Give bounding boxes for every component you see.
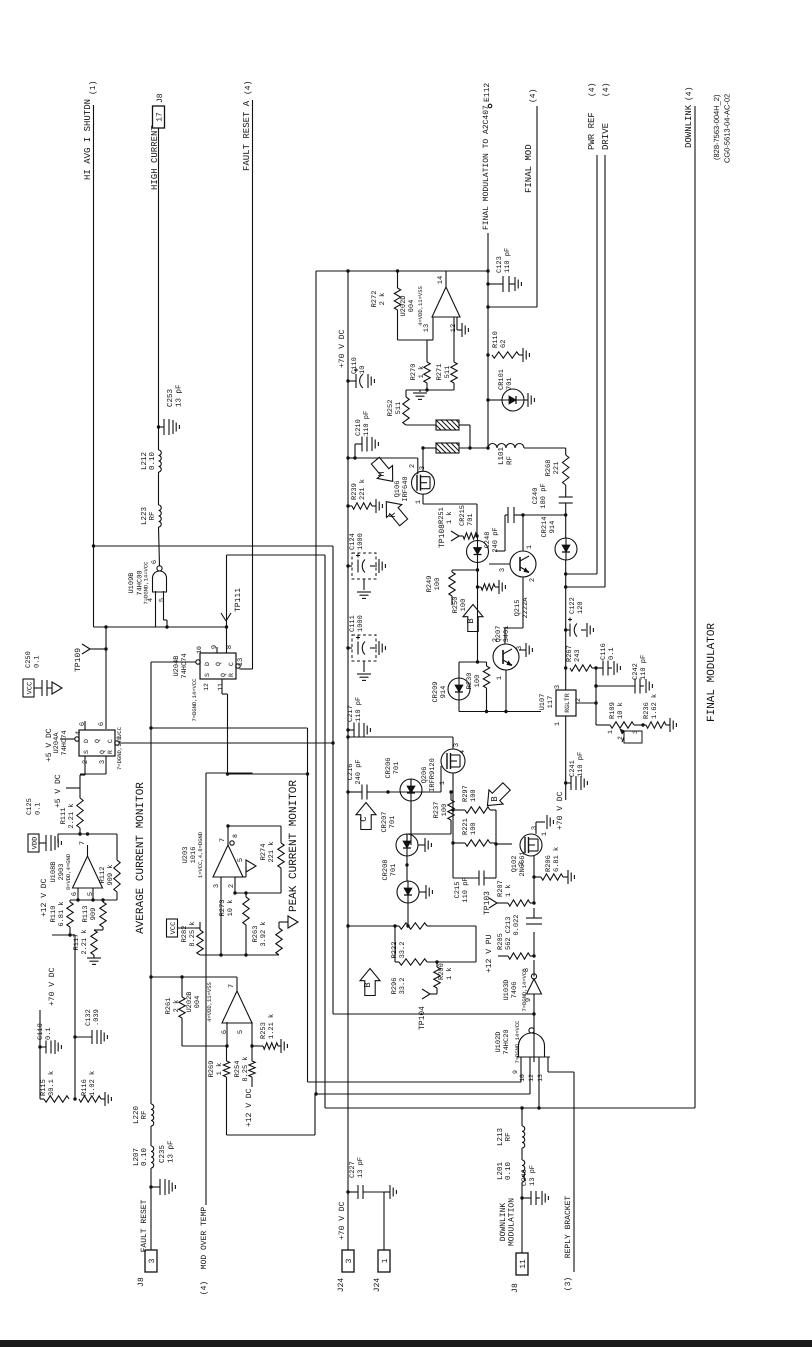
svg-text:CR206: CR206 bbox=[385, 757, 393, 778]
resistor R207 bbox=[497, 880, 536, 906]
svg-text:221 k: 221 k bbox=[267, 841, 276, 862]
svg-text:B: B bbox=[490, 796, 500, 802]
svg-text:R251: R251 bbox=[438, 507, 446, 524]
svg-text:R249: R249 bbox=[426, 576, 434, 593]
svg-text:100: 100 bbox=[474, 675, 482, 688]
svg-text:1: 1 bbox=[439, 781, 447, 785]
wire Q215 emitter bbox=[505, 577, 523, 644]
svg-text:Q206: Q206 bbox=[421, 767, 429, 784]
svg-text:100: 100 bbox=[470, 789, 478, 802]
svg-text:R110: R110 bbox=[492, 331, 500, 348]
svg-text:FINAL MODULATION TO A2C407: FINAL MODULATION TO A2C407 bbox=[482, 105, 491, 230]
svg-text:13 pF: 13 pF bbox=[167, 1140, 176, 1163]
wire HI AVG I SHUTDN net bbox=[93, 105, 95, 546]
connector J8-17 HIGH CURRENT bbox=[153, 106, 165, 128]
svg-text:914: 914 bbox=[549, 521, 557, 534]
label HI AVG I SHUTDN bbox=[83, 81, 98, 180]
svg-text:D: D bbox=[204, 662, 211, 666]
svg-text:C: C bbox=[228, 662, 235, 666]
diode CR209 bbox=[432, 662, 470, 703]
svg-text:1 k: 1 k bbox=[445, 511, 454, 524]
inductor L207 bbox=[132, 1146, 154, 1168]
svg-text:J8: J8 bbox=[511, 1283, 520, 1293]
svg-text:6: 6 bbox=[98, 722, 106, 726]
label J8 HIGH CURRENT bbox=[156, 93, 165, 103]
svg-text:+12 V DC: +12 V DC bbox=[40, 878, 49, 917]
svg-text:1: 1 bbox=[116, 736, 124, 740]
diode CR208 bbox=[382, 859, 419, 903]
svg-text:3: 3 bbox=[499, 568, 507, 572]
svg-text:R236: R236 bbox=[643, 702, 651, 719]
svg-text:1: 1 bbox=[496, 676, 504, 680]
svg-text:6: 6 bbox=[79, 722, 87, 726]
svg-text:4: 4 bbox=[147, 598, 155, 602]
svg-text:C241: C241 bbox=[569, 760, 577, 777]
svg-text:(4): (4) bbox=[685, 87, 694, 101]
mosfet Q206 IRFR9120 bbox=[421, 743, 467, 792]
resistor R252 bbox=[387, 397, 409, 425]
svg-text:8=VDD,4=GND: 8=VDD,4=GND bbox=[65, 853, 72, 890]
wire downlink chain bbox=[521, 1108, 523, 1253]
svg-text:DRIVE: DRIVE bbox=[601, 123, 611, 150]
svg-text:1 k: 1 k bbox=[417, 366, 426, 379]
ic U204B 74HC74 bbox=[173, 653, 240, 721]
svg-text:110 pF: 110 pF bbox=[640, 655, 648, 680]
svg-text:1: 1 bbox=[554, 722, 562, 726]
svg-text:3: 3 bbox=[531, 826, 539, 830]
svg-text:6.81 k: 6.81 k bbox=[552, 847, 561, 872]
resistor R249 bbox=[426, 568, 479, 596]
wire U202D pin13 bbox=[398, 317, 434, 362]
svg-text:7=DGND,14=VCC: 7=DGND,14=VCC bbox=[116, 726, 123, 770]
capacitor C248 bbox=[484, 507, 525, 553]
label DOWNLINK bbox=[684, 87, 694, 148]
svg-text:5: 5 bbox=[237, 1030, 245, 1034]
svg-text:4=VDD,11=VSS: 4=VDD,11=VSS bbox=[417, 285, 424, 325]
mosfet Q102 2N6661 bbox=[511, 826, 549, 877]
svg-text:240 pF: 240 pF bbox=[492, 527, 500, 552]
capacitor C227 bbox=[346, 1157, 384, 1199]
svg-text:3.92 k: 3.92 k bbox=[259, 921, 268, 946]
capacitor C242 bbox=[594, 655, 652, 694]
label AVERAGE CURRENT MONITOR bbox=[135, 782, 147, 934]
svg-text:2: 2 bbox=[409, 464, 417, 468]
svg-text:74HC74: 74HC74 bbox=[181, 653, 189, 678]
resistor R206 bbox=[534, 847, 574, 884]
wire U204A pin2 D bbox=[80, 756, 85, 798]
resistor R271 bbox=[436, 317, 457, 383]
transistor Q207 S401 bbox=[492, 626, 524, 681]
svg-text:R296: R296 bbox=[391, 978, 399, 995]
label +70V DC reg bbox=[556, 791, 565, 830]
diode CR206 bbox=[385, 757, 422, 801]
svg-text:7=DGND,14=VCC: 7=DGND,14=VCC bbox=[521, 968, 528, 1012]
svg-text:C111: C111 bbox=[349, 615, 357, 632]
svg-text:CR214: CR214 bbox=[541, 516, 549, 537]
svg-text:3: 3 bbox=[213, 884, 221, 888]
wire U204B pin10 bbox=[151, 662, 196, 1104]
svg-text:TP108: TP108 bbox=[438, 524, 447, 548]
wire Q215 collector bbox=[522, 515, 524, 551]
wire row 962 bbox=[395, 926, 476, 964]
svg-text:H: H bbox=[377, 471, 387, 476]
label U204B pins bbox=[196, 645, 245, 691]
resistor R268 bbox=[545, 448, 569, 485]
svg-text:1.21 k: 1.21 k bbox=[267, 1014, 276, 1039]
svg-text:Q: Q bbox=[220, 673, 227, 677]
svg-text:110 pF: 110 pF bbox=[462, 877, 470, 902]
svg-text:U103D: U103D bbox=[503, 979, 511, 1000]
arrow C bbox=[356, 803, 376, 830]
svg-text:1000: 1000 bbox=[357, 615, 365, 632]
svg-text:J8: J8 bbox=[137, 1277, 146, 1287]
svg-text:7406: 7406 bbox=[511, 982, 519, 999]
svg-text:TP103: TP103 bbox=[483, 891, 492, 915]
svg-text:914: 914 bbox=[440, 686, 448, 699]
svg-text:(828-7563-004H_2): (828-7563-004H_2) bbox=[712, 94, 721, 160]
wire pot to R236 bbox=[634, 723, 646, 726]
svg-text:10 k: 10 k bbox=[226, 900, 235, 917]
wire R111 to opamp rail bbox=[78, 828, 81, 836]
svg-text:E112: E112 bbox=[483, 83, 492, 102]
wire to R252 bbox=[405, 390, 407, 397]
wire PWR REF corner bbox=[564, 572, 597, 575]
svg-text:221 k: 221 k bbox=[358, 479, 367, 500]
wire +12V U202B bbox=[245, 1077, 254, 1127]
svg-text:(3): (3) bbox=[564, 1277, 573, 1291]
svg-text:7=DGND,14=VCC: 7=DGND,14=VCC bbox=[514, 1020, 521, 1064]
svg-text:CR208: CR208 bbox=[382, 859, 390, 880]
svg-text:C248: C248 bbox=[484, 532, 492, 549]
svg-text:R115: R115 bbox=[40, 1079, 48, 1096]
svg-text:C240: C240 bbox=[532, 488, 540, 505]
svg-text:Q: Q bbox=[94, 739, 101, 743]
svg-text:R273: R273 bbox=[219, 900, 227, 917]
svg-text:701: 701 bbox=[390, 864, 398, 877]
svg-text:Q: Q bbox=[99, 750, 106, 754]
nand U102D 74HC20 bbox=[495, 1020, 550, 1064]
svg-text:U102D: U102D bbox=[495, 1031, 503, 1052]
svg-text:R253: R253 bbox=[260, 1022, 268, 1039]
svg-text:L223: L223 bbox=[140, 507, 149, 526]
svg-text:B: B bbox=[466, 618, 476, 624]
capacitor C116 bbox=[596, 643, 620, 675]
ground U202D pin12 bbox=[462, 323, 468, 337]
svg-text:MODULATION: MODULATION bbox=[508, 1198, 517, 1246]
svg-text:RF: RF bbox=[505, 1132, 513, 1141]
ground R253 bbox=[278, 1039, 287, 1053]
svg-text:VCC: VCC bbox=[170, 922, 178, 935]
wire U107 pin1 down bbox=[565, 716, 567, 800]
resistor R239 bbox=[346, 479, 372, 509]
wire U108B pin6 bbox=[70, 888, 93, 902]
svg-text:(4): (4) bbox=[602, 83, 611, 97]
svg-text:R274: R274 bbox=[260, 844, 268, 861]
resistor R274 bbox=[260, 826, 284, 868]
svg-text:C250: C250 bbox=[25, 651, 33, 668]
label U109B pins bbox=[147, 560, 167, 602]
svg-text:+70 V DC: +70 V DC bbox=[556, 791, 565, 830]
svg-text:TP104: TP104 bbox=[418, 1006, 427, 1030]
ground C227 bbox=[384, 1185, 396, 1199]
svg-text:C253: C253 bbox=[166, 388, 175, 407]
wire ladder right bbox=[494, 810, 497, 878]
svg-text:RF: RF bbox=[141, 1110, 149, 1119]
svg-text:0.1: 0.1 bbox=[35, 802, 43, 815]
wire row 792 bbox=[346, 790, 362, 793]
svg-text:R237: R237 bbox=[433, 802, 441, 819]
svg-text:4: 4 bbox=[459, 750, 467, 754]
svg-text:110 pF: 110 pF bbox=[355, 697, 363, 722]
testpoint TP108 bbox=[438, 524, 463, 548]
capacitor C210 bbox=[346, 411, 378, 460]
svg-text:+70 V DC: +70 V DC bbox=[338, 329, 347, 368]
testpoint TP104 bbox=[418, 988, 437, 1030]
svg-text:2.21 k: 2.21 k bbox=[80, 929, 89, 954]
svg-text:C124: C124 bbox=[349, 533, 357, 550]
svg-text:TP111: TP111 bbox=[234, 588, 243, 612]
svg-text:R239: R239 bbox=[351, 483, 359, 500]
box peak monitor outline bbox=[227, 546, 334, 1135]
svg-text:FINAL MODULATOR: FINAL MODULATOR bbox=[706, 623, 718, 722]
svg-text:R206: R206 bbox=[545, 855, 553, 872]
svg-text:110 pF: 110 pF bbox=[363, 411, 371, 436]
svg-text:J8: J8 bbox=[156, 93, 165, 103]
svg-text:C: C bbox=[359, 816, 369, 822]
svg-text:8.25 k: 8.25 k bbox=[188, 921, 197, 946]
resistor R270 bbox=[410, 362, 430, 383]
svg-text:J24: J24 bbox=[337, 1278, 346, 1293]
pot wiper R109 bbox=[620, 729, 642, 743]
svg-text:U202D: U202D bbox=[400, 295, 408, 316]
connector J24-3 bbox=[337, 1250, 354, 1292]
svg-text:120: 120 bbox=[577, 601, 585, 614]
capacitor C213 bbox=[505, 914, 542, 935]
resistor R272 bbox=[371, 269, 401, 340]
label U102D pins bbox=[512, 1070, 544, 1082]
svg-text:C216: C216 bbox=[347, 764, 355, 781]
arrow U203 pin5 bbox=[235, 858, 256, 877]
svg-text:4=VDD,11=VSS: 4=VDD,11=VSS bbox=[206, 981, 213, 1021]
svg-text:L207: L207 bbox=[132, 1148, 141, 1166]
svg-text:1.02 k: 1.02 k bbox=[88, 1071, 97, 1096]
wire Q106 source bbox=[423, 494, 477, 536]
inductor L220 bbox=[132, 1104, 154, 1126]
wire Q206 drain bbox=[452, 737, 454, 749]
label E112 bbox=[483, 83, 492, 102]
label FAULT RESET bbox=[140, 1199, 149, 1252]
power VCC box C250 bbox=[23, 679, 42, 697]
svg-text:1.62 k: 1.62 k bbox=[650, 694, 659, 719]
svg-text:R221: R221 bbox=[462, 818, 470, 835]
wire U204A pin6 riser bbox=[104, 625, 107, 729]
ground CR207 bbox=[418, 838, 431, 852]
mosfet Q106 IRF640 bbox=[394, 464, 435, 504]
svg-text:+12 V DC: +12 V DC bbox=[245, 1088, 254, 1127]
opamp U108B bbox=[50, 841, 103, 896]
nand U109B bbox=[128, 561, 167, 605]
capacitor C125 bbox=[26, 798, 61, 851]
svg-text:004: 004 bbox=[194, 996, 202, 1009]
svg-text:C210: C210 bbox=[355, 419, 363, 436]
svg-text:IRFR9120: IRFR9120 bbox=[429, 758, 437, 792]
capacitor C110b bbox=[346, 357, 374, 388]
svg-text:R: R bbox=[107, 750, 114, 754]
resistor R251 bbox=[438, 507, 479, 539]
wire U202B pin6 bbox=[182, 1018, 229, 1048]
svg-text:3: 3 bbox=[554, 685, 562, 689]
svg-text:R268: R268 bbox=[545, 460, 553, 477]
wire bus2 bottom bbox=[316, 1093, 530, 1095]
svg-text:CR215: CR215 bbox=[459, 505, 467, 526]
regulator U107 117 bbox=[539, 685, 583, 726]
arrow B3 bbox=[360, 969, 380, 996]
svg-text:13: 13 bbox=[237, 658, 245, 666]
wire Q106 gate bbox=[417, 458, 419, 474]
svg-text:13: 13 bbox=[537, 1074, 544, 1082]
inductor L101 bbox=[488, 444, 524, 466]
svg-text:(4): (4) bbox=[200, 1281, 209, 1295]
wire +70V rail bbox=[346, 269, 349, 1192]
power VDD box C125 bbox=[28, 834, 46, 852]
resistor R263 bbox=[252, 921, 282, 955]
resistor R117 bbox=[73, 927, 103, 955]
svg-text:R117: R117 bbox=[73, 934, 81, 951]
wire row 728 bbox=[149, 726, 309, 775]
svg-text:C125: C125 bbox=[26, 798, 34, 815]
svg-text:C213: C213 bbox=[505, 917, 513, 934]
wire FINAL MODULATION net bbox=[316, 233, 488, 1094]
wire Q102 gate bbox=[496, 843, 512, 845]
svg-text:511: 511 bbox=[395, 402, 403, 415]
svg-text:CR209: CR209 bbox=[432, 681, 440, 702]
wire U204A pin1 out bbox=[119, 741, 334, 744]
svg-text:Q215: Q215 bbox=[514, 600, 522, 617]
svg-text:2: 2 bbox=[529, 578, 537, 582]
svg-text:AVERAGE CURRENT MONITOR: AVERAGE CURRENT MONITOR bbox=[135, 782, 147, 934]
svg-text:2 k: 2 k bbox=[378, 293, 387, 306]
svg-text:HI AVG I SHUTDN: HI AVG I SHUTDN bbox=[83, 99, 93, 180]
wire main chain bbox=[533, 877, 535, 1062]
wire FB2 to L101 bbox=[459, 447, 488, 449]
svg-text:2: 2 bbox=[82, 760, 90, 764]
resistor R236 bbox=[643, 694, 676, 732]
diode CR101 bbox=[486, 369, 534, 411]
svg-text:R111: R111 bbox=[60, 808, 68, 825]
svg-text:FINAL MOD: FINAL MOD bbox=[524, 144, 534, 193]
svg-text:3: 3 bbox=[148, 1258, 157, 1263]
inductor L212 bbox=[140, 450, 161, 472]
svg-text:R297: R297 bbox=[462, 785, 470, 802]
svg-text:Q: Q bbox=[215, 662, 222, 666]
svg-text:562: 562 bbox=[505, 937, 513, 950]
svg-text:6: 6 bbox=[221, 1030, 229, 1034]
connector J24-1 bbox=[373, 1250, 390, 1292]
svg-text:10: 10 bbox=[196, 646, 203, 654]
svg-text:RF: RF bbox=[149, 511, 157, 520]
svg-text:R230: R230 bbox=[466, 673, 474, 690]
svg-text:S401: S401 bbox=[503, 626, 511, 643]
svg-text:12: 12 bbox=[528, 1074, 535, 1082]
svg-text:1=VCC,4,8=DGND: 1=VCC,4,8=DGND bbox=[197, 831, 204, 878]
wire U203 pin3 bbox=[219, 877, 222, 957]
resistor R282 bbox=[181, 921, 203, 955]
svg-text:U109B: U109B bbox=[128, 572, 136, 593]
svg-text:C116: C116 bbox=[600, 643, 608, 660]
resistor R250 bbox=[452, 580, 505, 613]
label DOWNLINK MODULATION bbox=[499, 1198, 517, 1246]
svg-text:C132: C132 bbox=[85, 1009, 93, 1026]
svg-text:R252: R252 bbox=[387, 400, 395, 417]
svg-text:13 pF: 13 pF bbox=[175, 384, 184, 407]
svg-text:U202B: U202B bbox=[186, 991, 194, 1012]
svg-text:U204B: U204B bbox=[173, 655, 181, 676]
wire row 662 bbox=[459, 660, 487, 663]
svg-text:U108B: U108B bbox=[50, 861, 58, 882]
wire x485 end bbox=[470, 447, 488, 449]
svg-text:R: R bbox=[228, 673, 235, 677]
svg-text:HIGH CURRENT: HIGH CURRENT bbox=[150, 125, 160, 190]
capacitor C124 bbox=[346, 533, 385, 598]
svg-text:R112: R112 bbox=[99, 867, 107, 884]
svg-text:C110: C110 bbox=[37, 1023, 45, 1040]
wire reg chain top bbox=[565, 630, 567, 690]
resistor R110 bbox=[50, 900, 73, 927]
testpoint TP111 bbox=[217, 588, 243, 653]
wire CR206 down bbox=[410, 801, 412, 845]
svg-text:8: 8 bbox=[226, 645, 234, 649]
label FAULT RESET A bbox=[242, 81, 253, 171]
svg-text:2: 2 bbox=[575, 698, 583, 702]
resistor R237 bbox=[407, 790, 454, 834]
svg-text:7: 7 bbox=[228, 984, 236, 988]
svg-text:R205: R205 bbox=[497, 933, 505, 950]
svg-text:B: B bbox=[363, 982, 373, 988]
svg-text:C246: C246 bbox=[521, 1169, 529, 1186]
svg-text:10: 10 bbox=[519, 1074, 526, 1082]
wire U204B pin8 drop bbox=[225, 625, 228, 653]
arrow K bbox=[379, 495, 412, 529]
wire row 737 bbox=[346, 735, 453, 738]
svg-text:FAULT RESET: FAULT RESET bbox=[140, 1199, 149, 1252]
svg-text:10: 10 bbox=[359, 366, 367, 374]
resistor R267 bbox=[564, 645, 598, 671]
svg-text:2 k: 2 k bbox=[172, 1000, 181, 1013]
inductor L201 bbox=[496, 1160, 525, 1182]
svg-text:909 k: 909 k bbox=[106, 864, 115, 885]
opamp U203 bbox=[182, 831, 243, 888]
svg-text:100: 100 bbox=[470, 822, 478, 835]
wire HI AVG horizontal run bbox=[92, 544, 333, 547]
wire DRIVE net bbox=[604, 155, 606, 587]
resistor R273 bbox=[219, 891, 249, 925]
diode CR207 bbox=[381, 811, 418, 856]
wire FB1 right bbox=[459, 425, 472, 450]
svg-text:L201: L201 bbox=[496, 1162, 505, 1181]
svg-text:CG0-5613-04-AC-02: CG0-5613-04-AC-02 bbox=[723, 94, 732, 163]
wire Q206 gate bbox=[388, 766, 441, 792]
resistor R261 bbox=[165, 975, 185, 1018]
svg-text:IRF640: IRF640 bbox=[402, 476, 410, 501]
wire FINAL MODULATION lower bbox=[486, 269, 489, 449]
svg-text:C235: C235 bbox=[158, 1144, 167, 1163]
connector J8-11 bbox=[511, 1253, 528, 1293]
wire U203 out bbox=[226, 824, 281, 845]
svg-text:S: S bbox=[204, 673, 211, 677]
svg-text:0.022: 0.022 bbox=[513, 914, 521, 935]
ground Q207 bbox=[519, 643, 532, 657]
resistor R113 bbox=[82, 898, 106, 927]
